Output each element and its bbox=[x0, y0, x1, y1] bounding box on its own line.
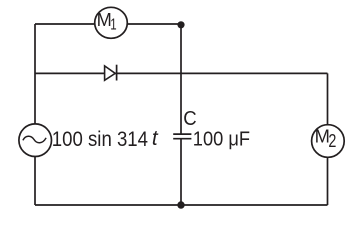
svg-text:1: 1 bbox=[110, 17, 116, 34]
AC source V1 bbox=[19, 124, 52, 157]
wire middle branch lower bbox=[180, 139, 182, 205]
node junction dot top bbox=[177, 21, 184, 28]
meter M2 bbox=[312, 125, 345, 158]
wire right rail bbox=[327, 73, 329, 205]
wire diode branch bbox=[35, 72, 328, 74]
svg-text:100 sin 314: 100 sin 314 bbox=[52, 128, 148, 151]
wire left rail bbox=[34, 24, 36, 205]
wire middle branch upper bbox=[180, 24, 182, 134]
wire top rail bbox=[35, 23, 181, 25]
svg-text:100 μF: 100 μF bbox=[193, 127, 250, 150]
svg-text:2: 2 bbox=[328, 130, 336, 151]
wire bottom rail bbox=[35, 204, 328, 206]
svg-text:t: t bbox=[152, 127, 159, 150]
diode D1 bbox=[105, 65, 117, 81]
node junction dot bottom bbox=[177, 201, 184, 208]
meter M1 bbox=[95, 7, 128, 38]
capacitor C bbox=[173, 134, 191, 139]
